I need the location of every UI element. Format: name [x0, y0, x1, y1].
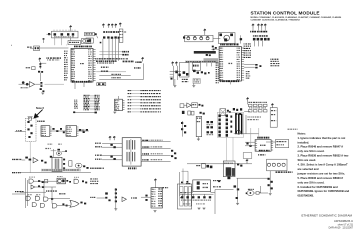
- left column parts 2: [184, 125, 186, 127]
- U9001 dark marks 2: [197, 186, 200, 189]
- net labels right of U3002 lower: [246, 71, 250, 72]
- diode on bottom wire: [95, 112, 97, 114]
- U3001 left net label column: [64, 51, 68, 52]
- wire T8001 in 4: [102, 159, 122, 161]
- inductor L3001: [54, 33, 57, 35]
- net list column 1 names: [84, 95, 90, 96]
- wire across bottom y178: [237, 177, 268, 179]
- capacitor C4013: [63, 163, 65, 165]
- net label PWR_B: [122, 54, 128, 56]
- power flag VDD D: [115, 24, 117, 28]
- wire U3004 out extension: [45, 83, 65, 85]
- ground U3006: [113, 112, 116, 114]
- filter box B: [179, 63, 189, 78]
- svg-text:ETHERNET SCHEMATIC DIAGRAM: ETHERNET SCHEMATIC DIAGRAM: [302, 214, 353, 218]
- svg-text:6. Installed for 01857962XB an: 6. Installed for 01857962XB and: [298, 185, 339, 189]
- parts in dashed box 1: [27, 121, 29, 123]
- input net label left: [15, 191, 24, 192]
- wire flag down: [204, 33, 206, 35]
- box right of matrix: [270, 108, 277, 128]
- and-gate U4024: [26, 196, 30, 200]
- magnetics winding column B: [226, 115, 228, 118]
- wire T8001 in 2: [102, 146, 122, 148]
- power flag right box: [271, 103, 273, 107]
- crystal X3002 label: [26, 67, 30, 68]
- resistor RN3: [260, 38, 263, 41]
- wire U3006 top: [118, 96, 120, 99]
- parts below dark bar: [206, 54, 208, 56]
- wire power verticals: [181, 194, 183, 196]
- wire RN bank down 1: [253, 41, 255, 46]
- net labels row 2 near U3001 top-left: [47, 59, 59, 60]
- vertical chain part 2: [115, 192, 117, 194]
- series part on VEE wire 2: [39, 66, 41, 68]
- wire magnetics to filter 1: [226, 137, 228, 161]
- parts in dashed box 2: [30, 125, 32, 127]
- wire Y3001 stub: [30, 47, 34, 49]
- transistor Q3002: [26, 83, 29, 86]
- U3001 top oscillator Y3002: [82, 39, 91, 44]
- transistor Q4031: [105, 192, 108, 194]
- left column wire: [181, 121, 183, 137]
- inductor L3054: [206, 37, 209, 40]
- capacitor C3042: [178, 74, 180, 76]
- wire relay jog: [182, 170, 189, 172]
- bottom rail label: [12, 172, 21, 173]
- net label mid row: [46, 190, 57, 191]
- net list wires: [90, 95, 95, 109]
- gate U4028: [40, 203, 44, 207]
- IC U4001: [41, 126, 50, 137]
- U3001 left pin stubs: [71, 50, 74, 81]
- wire U4001 to U4002: [50, 130, 66, 132]
- rail box part: [202, 163, 206, 168]
- T8001 input label pair 3: [95, 155, 102, 156]
- label row inside filter box: [54, 35, 74, 38]
- wire row 1: [99, 74, 130, 76]
- U3002 right inner pin labels: [237, 48, 240, 49]
- net label bus segment 1: [96, 60, 117, 62]
- cap pair row 1: [207, 121, 210, 123]
- resistor RP5: [118, 37, 120, 39]
- left column parts 4: [184, 131, 186, 133]
- IC U3006: [115, 99, 123, 110]
- varistor array pins: [266, 159, 268, 161]
- dust speck: [10, 44, 13, 47]
- and-gate U4029: [52, 204, 56, 208]
- svg-text:1. Ignore indicates that the p: 1. Ignore indicates that the part is not: [298, 136, 346, 140]
- relay block bar 2: [184, 187, 187, 207]
- power flag above inductor row: [204, 29, 206, 33]
- U4001 inner labels: [42, 127, 46, 128]
- small marks bottom mid: [218, 180, 220, 182]
- wire T8001 out 3: [141, 155, 171, 157]
- chain label above: [37, 121, 45, 122]
- resistor R4011: [41, 160, 43, 162]
- vertical gray line left of jack: [250, 128, 252, 146]
- wire Y3001 to U3001: [40, 47, 69, 49]
- wire R9005 to drop: [259, 191, 261, 193]
- header box H3001: [85, 32, 95, 35]
- chain lower boxes: [188, 111, 191, 115]
- crystal Y4001 above dashed box: [29, 117, 32, 120]
- op-amp U3004: [30, 82, 35, 88]
- wire to PWR_B label: [99, 54, 122, 56]
- label above comparator: [45, 148, 50, 149]
- wire R3010 curve: [95, 35, 98, 38]
- resistor R3022: [40, 82, 42, 84]
- wire horizontal return: [99, 78, 143, 80]
- crystal Y3001: [34, 46, 40, 51]
- resistor R4001: [52, 128, 54, 130]
- gray bus band thick right: [204, 58, 219, 63]
- magnetics top blobs: [235, 113, 237, 115]
- series resistor R8071: [246, 143, 248, 145]
- resistor R3023: [40, 85, 42, 87]
- parts row4: [62, 203, 64, 205]
- U3002 right pin stubs: [241, 48, 244, 80]
- net label bottom mid 2: [213, 186, 221, 187]
- cap label C8018: [248, 119, 259, 120]
- small box below jack: [243, 153, 252, 159]
- net label pair A: [101, 67, 109, 68]
- op-amp U4011: [33, 158, 38, 163]
- driver output label: [131, 197, 137, 198]
- wire link 2: [51, 187, 53, 204]
- capacitor C3044: [186, 73, 188, 76]
- net label pair B: [101, 71, 108, 72]
- wire inductor row to oscillator: [213, 38, 220, 40]
- capacitor C3021: [41, 71, 43, 73]
- bulk cap bank 6: [209, 196, 211, 198]
- vertical gray line into jack: [258, 128, 260, 137]
- marks in right mid box: [276, 141, 286, 142]
- resistor R4032: [108, 199, 110, 201]
- svg-text:4. SIA_Select is low if Comp A: 4. SIA_Select is low if Comp A 10BaseT: [298, 163, 348, 167]
- wire magnetics to filter 2: [232, 137, 234, 161]
- oscillator pin blob 3: [224, 38, 227, 41]
- U3006 right pins: [123, 100, 125, 109]
- T8001 out 2 label: [142, 146, 149, 147]
- wire X cluster down: [40, 73, 42, 81]
- wire U3001 bottom mid: [83, 83, 85, 87]
- net label mid row 2: [59, 193, 65, 194]
- wire 1.28 to dashed box: [15, 130, 26, 132]
- ground Q9001: [236, 203, 239, 205]
- net label bus segment 1 lower: [97, 62, 114, 63]
- wire F1 down: [172, 66, 174, 85]
- filter module box: [223, 161, 235, 177]
- parts in dashed box 5: [28, 136, 30, 138]
- T8001 out 3 label: [142, 153, 149, 154]
- net list bottom wire: [73, 111, 97, 113]
- power flag at bus end: [141, 57, 143, 61]
- JVL gray label: [79, 129, 86, 131]
- wire left branch row3: [25, 197, 28, 199]
- op-amp U4012: [75, 163, 82, 168]
- net label bus segment 3: [135, 61, 142, 63]
- wire row 2 label: [111, 77, 120, 78]
- relay block bar 1: [180, 187, 183, 207]
- svg-text:DAR-AA19 12/1/2007: DAR-AA19 12/1/2007: [329, 226, 354, 229]
- wire mid rail: [20, 191, 46, 193]
- ground narrow box: [197, 139, 200, 141]
- input net label AIN: [12, 159, 21, 160]
- U3002 bottom label bar: [220, 80, 239, 82]
- parts right of U4030: [80, 202, 82, 204]
- relay K3001 core: [89, 39, 92, 42]
- wire Q9001 down: [237, 178, 239, 203]
- svg-text:01857965XB.: 01857965XB.: [298, 194, 315, 198]
- capacitor C3002: [72, 33, 74, 35]
- wire RP2 down: [108, 39, 110, 61]
- chain input box: [180, 104, 184, 108]
- wire T8001 out 4: [141, 160, 171, 162]
- capacitor C3041: [175, 71, 178, 74]
- wire chain: [184, 104, 187, 106]
- RJ45 jack J8001 body: [255, 140, 271, 152]
- U3005 lower dark: [193, 70, 196, 72]
- wire AIN: [22, 159, 26, 161]
- wire RP4 down: [115, 39, 117, 61]
- wire to PWR_A label: [99, 51, 122, 53]
- wire T8001 in 1: [102, 143, 122, 145]
- wire VEE down: [39, 62, 41, 69]
- wire rail up: [246, 158, 248, 160]
- wire T8001 out 1: [141, 140, 171, 142]
- J8001 inner pins left: [255, 141, 257, 150]
- ground below Q cluster: [41, 93, 44, 95]
- wire rows3-4 link: [43, 181, 45, 197]
- resistor R3043: [201, 71, 203, 73]
- net label bus segment 2: [123, 61, 134, 63]
- J8001 below marks: [258, 154, 265, 155]
- label 1.28 MHz: [27, 47, 32, 48]
- U4002 pins left: [66, 127, 68, 135]
- T8001 winding bottom: [126, 152, 128, 162]
- jumper resistor R8047: [253, 104, 257, 106]
- U9002 label above: [248, 189, 254, 190]
- gate U4027: [32, 203, 36, 207]
- T8001 input label pair 4: [95, 159, 102, 160]
- resistor R4013: [83, 165, 85, 167]
- magnetics vertical bars: [235, 114, 237, 135]
- capacitor C3001: [67, 33, 69, 35]
- series part on VEE wire 1: [39, 63, 41, 65]
- net list stub marks: [74, 100, 77, 101]
- resistor R4031: [105, 197, 107, 199]
- wire RN bank down 3: [262, 41, 264, 46]
- vertical chain part 1: [115, 189, 117, 191]
- power flag VDD A: [102, 24, 104, 28]
- resistor RN4: [264, 38, 267, 41]
- termination box below U3001: [97, 83, 106, 86]
- capacitor C3024: [40, 88, 42, 90]
- narrow box U8002a: [196, 116, 202, 136]
- wire F2 down: [176, 66, 178, 80]
- jumper resistor R8032: [263, 104, 267, 106]
- big or-gate U4030: [70, 200, 79, 207]
- wire J8001 left 1: [245, 141, 255, 143]
- filter dark block 2: [232, 168, 235, 176]
- bulk cap bank 2: [186, 196, 188, 198]
- net label under Q cluster: [21, 87, 29, 88]
- parts in dashed box 4: [30, 132, 32, 134]
- rail dark blob 2: [210, 166, 213, 169]
- resistor R3021: [38, 71, 40, 73]
- net label PWR_A: [122, 51, 129, 53]
- resistor RN5: [267, 38, 269, 41]
- T8001 winding top: [126, 140, 128, 149]
- wire RP3 down: [111, 39, 113, 61]
- vertical chain part 3: [115, 196, 117, 198]
- resistor R4002: [56, 130, 58, 132]
- Note 6 arrow: [34, 110, 42, 118]
- corner cluster part 2: [271, 181, 273, 183]
- T8001 out 1 label: [142, 140, 149, 141]
- relay block bar 3: [189, 187, 192, 207]
- U4001 pins left: [41, 127, 43, 135]
- wire R9005 right: [259, 192, 268, 194]
- notes block: [297, 131, 350, 197]
- label right of U3003: [124, 31, 126, 32]
- net labels row near U3001 top-left: [46, 57, 61, 58]
- wire comparator out: [62, 151, 68, 153]
- bulk cap bank 5: [203, 196, 205, 198]
- terminator R8062 pair: [110, 156, 112, 158]
- svg-text:only one SIA is used.: only one SIA is used.: [298, 149, 325, 153]
- corner cluster part 4: [271, 187, 273, 189]
- ground chain: [114, 209, 117, 211]
- left vertical bus wire 1: [25, 178, 27, 208]
- wire U9002 out: [254, 192, 256, 194]
- comparator U9002 oval: [247, 191, 254, 196]
- ground power 1: [198, 208, 201, 210]
- inductor L3052: [193, 37, 196, 40]
- svg-text:5. Place R8032 and remove R803: 5. Place R8032 and remove R8033 if: [298, 176, 344, 180]
- chain parts right: [199, 104, 201, 106]
- wire narrow box down: [197, 137, 199, 139]
- termination cluster right of T8001: [171, 150, 173, 152]
- chain lower marks: [200, 112, 202, 114]
- wire filter to IC a: [54, 38, 56, 45]
- label rows under box B: [182, 79, 188, 80]
- dark bus bar below: [194, 51, 216, 54]
- second label row: [134, 67, 141, 69]
- wire cross: [170, 71, 181, 73]
- check mark part: [100, 42, 102, 44]
- tick marks above filter box: [54, 30, 75, 32]
- inductor row box: [185, 35, 213, 42]
- inductor L3053: [200, 37, 203, 40]
- U3001 top label bar: [74, 46, 92, 48]
- capacitor C4012: [63, 159, 65, 161]
- varistor array box: [267, 159, 287, 171]
- wire filter to C3003: [47, 33, 52, 35]
- jumper resistor R8033: [248, 110, 252, 112]
- cap pair row 3: [207, 131, 210, 133]
- power flag above U4041: [154, 179, 156, 183]
- wire into relay block 1: [182, 169, 184, 185]
- gate U4023: [31, 185, 35, 189]
- jumper resistor R8046: [248, 104, 252, 106]
- magnetics module outline: [217, 112, 243, 137]
- wire comparator left: [51, 150, 57, 152]
- ground filter: [173, 85, 176, 87]
- wire below U3002: [229, 81, 231, 84]
- power flag VCC1: [69, 25, 71, 29]
- power flag bank 4: [264, 24, 266, 28]
- power flag bank 3: [261, 24, 263, 28]
- or-gate U4022: [74, 179, 78, 183]
- T8001 input label pair 1: [95, 143, 101, 144]
- J8001 bottom label bar: [259, 150, 270, 152]
- resistor R9005: [256, 192, 259, 195]
- gray label right of box: [288, 129, 298, 130]
- net list column 2 names: [95, 95, 100, 96]
- wire bottom mid horizontal: [215, 189, 234, 191]
- TT label: [276, 171, 293, 173]
- U3001 part number label: [80, 63, 84, 64]
- U3006 left pins: [115, 100, 117, 109]
- corner cluster part 3: [268, 184, 270, 186]
- svg-text:01857963XB. Ignore for 0185796: 01857963XB. Ignore for 01857964XB and: [298, 189, 350, 193]
- bus band label marks: [186, 61, 216, 62]
- resistor RN2: [257, 38, 260, 41]
- power flag F2: [175, 62, 177, 66]
- svg-text:STATION CONTROL MODULE: STATION CONTROL MODULE: [251, 11, 320, 16]
- marks right of oscillator: [240, 38, 242, 40]
- wire right mid box left: [266, 141, 276, 143]
- resistor R3051: [255, 64, 257, 66]
- resistor R4024: [51, 198, 53, 200]
- power flag SIA select: [246, 97, 248, 101]
- left vertical bus wire 2: [27, 180, 29, 206]
- wire flag into U4041: [154, 183, 156, 188]
- box B4001: [69, 161, 72, 167]
- chain box U3008: [192, 103, 198, 108]
- cap pair row 3 labels: [207, 134, 214, 135]
- net list bottom part: [73, 111, 75, 113]
- wire left input horizontal: [12, 193, 26, 195]
- cap C9006: [236, 197, 238, 199]
- resistor RP3: [111, 37, 113, 39]
- wire into relay block 2: [187, 171, 189, 184]
- comparator output mark: [65, 150, 67, 151]
- U3001 right pin stubs: [93, 50, 96, 81]
- marks in right box: [271, 110, 276, 111]
- chain lower blob: [182, 111, 185, 114]
- transistor Q3001: [22, 81, 25, 84]
- resistor RP2: [107, 36, 109, 38]
- parts below comparator: [50, 156, 52, 158]
- U3002 part number: [228, 63, 232, 64]
- wire row 0: [96, 71, 126, 73]
- svg-text:Note 6: Note 6: [36, 106, 44, 110]
- T8001 center bar: [130, 139, 132, 165]
- bus vertical drop 2: [211, 63, 213, 67]
- U4002 pins right: [77, 127, 79, 135]
- tick right: [208, 72, 210, 74]
- wire out row3: [48, 197, 70, 199]
- left column parts 1: [181, 122, 183, 124]
- resistor R4014: [86, 167, 88, 169]
- U3001 bottom label bar: [72, 81, 92, 83]
- cap pair row 1 labels: [207, 124, 214, 125]
- resistor R3009: [43, 38, 45, 39]
- terminator R8061 pair: [110, 144, 112, 146]
- resistor R3010: [95, 33, 97, 35]
